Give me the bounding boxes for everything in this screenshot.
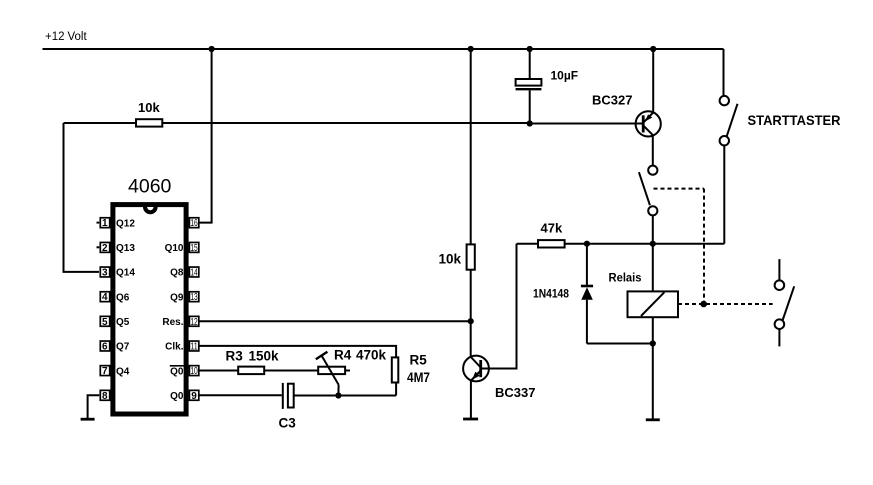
svg-text:R5: R5: [410, 353, 428, 368]
svg-text:STARTTASTER: STARTTASTER: [748, 112, 841, 128]
svg-text:3: 3: [102, 268, 108, 279]
node rail-10uF junction: [527, 46, 533, 52]
svg-text:Clk.: Clk.: [165, 342, 184, 353]
svg-text:10k: 10k: [138, 100, 160, 115]
svg-text:13: 13: [190, 292, 198, 303]
svg-text:Q0: Q0: [170, 391, 184, 402]
svg-text:Q8: Q8: [170, 268, 184, 279]
svg-text:47k: 47k: [541, 221, 563, 236]
node pin12 junction: [468, 318, 474, 324]
svg-text:+12: +12: [45, 31, 65, 43]
pin 9: [170, 390, 199, 402]
wire pin11 Clk to R5: [200, 346, 397, 358]
svg-text:C3: C3: [279, 416, 297, 431]
node dashed junction: [700, 301, 707, 308]
pin 15: [165, 242, 199, 254]
transistor Q1 BC327: [592, 49, 661, 166]
ground 4060: [81, 418, 95, 421]
svg-text:Q14: Q14: [116, 268, 135, 279]
svg-text:Q9: Q9: [170, 292, 184, 303]
potentiometer R4 470k: [316, 348, 387, 396]
pin 1: [97, 218, 136, 230]
pin 7: [100, 366, 129, 378]
svg-text:Q7: Q7: [116, 342, 130, 353]
node 10uF-base junction: [527, 120, 533, 126]
pin 16: [189, 218, 198, 229]
resistor R3 150k: [226, 349, 280, 375]
wire pin12 Res to junction: [200, 320, 471, 322]
pin 11: [165, 341, 199, 353]
switch STARTTASTER: [720, 49, 841, 244]
node relay-coil junction: [650, 241, 656, 247]
node relay-diode junction: [650, 340, 656, 346]
IC U1 4060 body: [113, 175, 186, 414]
wire C3 to R5 bottom: [294, 395, 396, 397]
svg-text:Res.: Res.: [162, 317, 183, 328]
diode D1 1N4148: [533, 244, 653, 344]
switch relay contact 2: [775, 259, 795, 346]
svg-text:Q6: Q6: [116, 292, 130, 303]
ground relay: [646, 418, 660, 421]
wire R5 to pin9 net: [395, 383, 397, 396]
svg-text:6: 6: [102, 342, 108, 353]
svg-text:14: 14: [190, 268, 198, 279]
wire pin9 to C3: [200, 394, 282, 396]
switch relay contact 1: [639, 166, 658, 244]
pin 13: [170, 292, 199, 304]
node wiper junction: [335, 392, 341, 398]
svg-text:4M7: 4M7: [407, 370, 430, 385]
svg-text:7: 7: [102, 366, 108, 377]
svg-text:Q12: Q12: [116, 218, 135, 229]
wire pin8 to ground: [88, 395, 100, 418]
capacitor C3: [279, 383, 297, 431]
svg-text:BC327: BC327: [592, 93, 632, 108]
resistor 10k vertical: [439, 244, 475, 269]
svg-text:Q4: Q4: [116, 366, 130, 377]
svg-text:8: 8: [102, 391, 108, 402]
svg-text:12: 12: [190, 317, 198, 328]
svg-text:Volt: Volt: [68, 31, 88, 43]
pin 4: [100, 292, 129, 304]
pin 3: [100, 267, 135, 279]
wire rail to pin16: [200, 49, 212, 223]
svg-text:5: 5: [102, 317, 108, 328]
svg-text:R3: R3: [226, 349, 244, 364]
node rail-BC327 junction: [650, 46, 656, 52]
wire 47k to BC337 base riser: [494, 244, 517, 369]
node rail-10k junction: [468, 46, 474, 52]
pin 5: [100, 316, 129, 328]
svg-text:10µF: 10µF: [551, 69, 579, 83]
wire 10uF junction to BC327 base: [530, 123, 644, 125]
svg-text:R4: R4: [334, 348, 352, 363]
svg-text:Q10: Q10: [165, 243, 184, 254]
wire pin10 to R3: [200, 370, 239, 372]
capacitor 10uF: [516, 49, 578, 124]
svg-text:150k: 150k: [249, 349, 280, 364]
wire 10k vertical to BC337 collector: [470, 270, 472, 358]
node rail-pin16 junction: [209, 46, 215, 52]
pin 14: [170, 267, 199, 279]
wire 10k-left down to pin3: [64, 123, 100, 272]
wire rail down through 10k vertical to BC337: [470, 49, 472, 244]
svg-text:11: 11: [190, 342, 198, 353]
svg-text:16: 16: [190, 218, 198, 229]
svg-text:Q5: Q5: [116, 317, 130, 328]
wire R3 to R4: [264, 370, 318, 372]
node 47k-diode junction: [584, 241, 590, 247]
wire +12V top rail: [43, 48, 724, 50]
wire 47k net: [565, 243, 725, 245]
pin 6: [100, 341, 129, 353]
svg-text:BC337: BC337: [495, 385, 535, 400]
svg-text:4: 4: [102, 292, 108, 303]
resistor 47k: [517, 221, 565, 248]
transistor Q2 BC337: [463, 356, 535, 419]
svg-text:Q13: Q13: [116, 243, 135, 254]
svg-text:1: 1: [102, 218, 108, 229]
ground BC337: [463, 418, 478, 421]
svg-text:470k: 470k: [356, 348, 387, 363]
resistor R5 4M7: [392, 353, 430, 386]
svg-text:10: 10: [190, 366, 198, 377]
svg-text:10k: 10k: [439, 252, 462, 267]
svg-text:4060: 4060: [128, 175, 172, 197]
relay K1 coil: [609, 244, 679, 317]
svg-text:2: 2: [102, 243, 108, 254]
resistor 10k top: [64, 100, 530, 127]
wire relay coil to ground: [652, 317, 654, 419]
pin 12: [162, 316, 198, 328]
svg-text:1N4148: 1N4148: [533, 287, 569, 301]
svg-text:Relais: Relais: [609, 270, 642, 284]
wire dashed linkage: [654, 189, 773, 304]
pin 10: [170, 366, 199, 378]
pin 2: [97, 242, 136, 254]
pin 8: [100, 390, 109, 401]
svg-text:15: 15: [190, 243, 198, 254]
svg-text:9: 9: [191, 391, 197, 402]
svg-text:Q0: Q0: [170, 366, 184, 377]
